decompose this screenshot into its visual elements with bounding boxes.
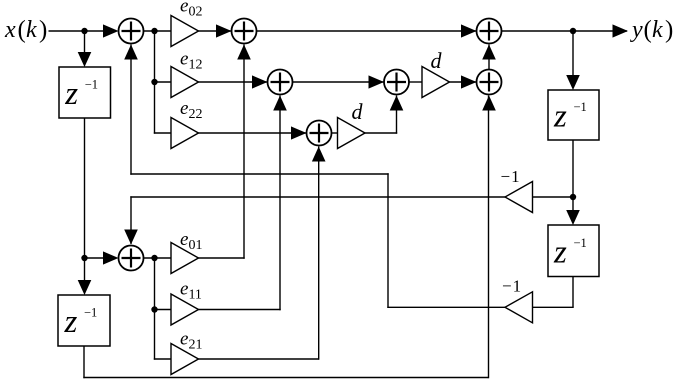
node after adder A1 (151, 28, 157, 34)
adder A4 (384, 70, 409, 95)
arrowhead into adder A6 (291, 126, 307, 139)
adder A7 (output adder) (477, 19, 502, 44)
svg-text:z: z (553, 99, 567, 135)
wire gain d1 up to adder A4 (365, 132, 398, 134)
wire adder A1 to gain e02 (144, 30, 172, 32)
arrowhead into adder A7 (461, 24, 477, 37)
svg-text:(: ( (644, 16, 652, 43)
wire delay B4 to bottom bus (83, 346, 85, 378)
svg-text:−1: −1 (501, 167, 521, 186)
adder A6 (307, 121, 332, 146)
adder A3 (268, 70, 293, 95)
arrowhead into delay B3 (566, 210, 580, 225)
gain N1 -1 triangle (505, 182, 533, 213)
svg-text:k: k (26, 17, 37, 43)
arrowhead into adder A4 (369, 75, 385, 88)
delay B1 z^-1 (59, 67, 111, 118)
wire x(k) input to adder A1 (49, 30, 111, 32)
arrowhead to output y(k) (613, 24, 629, 37)
arrowhead into adder A2 (216, 24, 232, 37)
arrowhead feedback into adder A8 top (124, 230, 138, 245)
svg-text:−1: −1 (84, 306, 97, 320)
arrowhead into delay B2 (566, 75, 580, 90)
wire gain e22 to adder A6 (199, 132, 307, 134)
gain e11 triangle (171, 294, 199, 325)
wire node to gain e11 (155, 309, 172, 311)
wire delay B3 to gain N2 (-1) (572, 277, 574, 308)
gain e12 triangle (171, 67, 199, 98)
arrowhead e21 into adder A6 bottom (312, 147, 326, 162)
wire output branch down to delay B2 (572, 31, 574, 88)
gain d2 triangle (422, 67, 450, 98)
wire gain e11 up to adder A3 bottom (199, 309, 281, 311)
wire adder A3 to adder A4 (293, 81, 385, 83)
gain N2 -1 triangle (505, 292, 533, 323)
wire node to gain N1 (-1) (533, 196, 574, 198)
svg-text:y: y (630, 17, 643, 43)
svg-text:−1: −1 (85, 78, 98, 92)
arrowhead e11 into adder A3 bottom (273, 96, 287, 111)
wire delay B2 to node above delay B3 (572, 140, 574, 223)
svg-text:(: ( (18, 16, 26, 43)
arrowhead into delay B4 (78, 280, 92, 295)
node e11 branch (151, 306, 157, 312)
wire adder A8 to gain e01 (144, 257, 172, 259)
gain e02 triangle (171, 16, 199, 47)
adder A1 (119, 19, 144, 44)
wire gain e21 up to adder A6 bottom (199, 358, 319, 360)
wire node down to delay B4 (84, 258, 86, 290)
arrowhead d1 into adder A4 bottom (390, 96, 404, 111)
wire gain d2 to adder A5 (450, 81, 477, 83)
wire branch down from node after A8 (feeds e11,e21 rows) (154, 258, 156, 360)
node between B2 and B3 (570, 194, 576, 200)
wire branch x(k) down to delay B1 (84, 31, 86, 62)
svg-text:x: x (4, 17, 16, 43)
adder A8 (lower input adder) (119, 246, 144, 271)
wire node to adder A8 (84, 257, 110, 259)
node input branch (81, 28, 87, 34)
svg-text:d: d (352, 99, 364, 124)
node e12 branch (151, 79, 157, 85)
gain e21 triangle (171, 344, 199, 375)
wire node to gain e12 (155, 81, 172, 83)
arrowhead feedback into adder A1 bottom (124, 45, 138, 60)
gain e22 triangle (171, 118, 199, 149)
arrowhead bus into adder A5 bottom (482, 96, 496, 111)
wire delay B1 down to node at A8 row (84, 118, 86, 258)
arrowhead into adder A8 (103, 251, 119, 264)
arrowhead A5 into adder A7 bottom (482, 45, 496, 60)
svg-text:): ) (39, 16, 47, 43)
adder A2 (232, 19, 257, 44)
svg-text:−1: −1 (574, 236, 587, 250)
wire gain N2 to adder A1 bottom (feedback) (387, 306, 505, 308)
arrowhead into adder A3 (252, 75, 268, 88)
svg-text:−1: −1 (502, 277, 522, 296)
wire gain N1 to adder A8 top (feedback) (130, 196, 505, 198)
adder A5 (477, 70, 502, 95)
svg-text:z: z (64, 76, 78, 112)
arrowhead into delay B1 (78, 52, 92, 67)
wire gain e12 to adder A3 (199, 81, 268, 83)
svg-text:z: z (553, 234, 567, 270)
wire branch down from node after A1 (feeds e12,e22 rows) (154, 31, 156, 134)
delay B3 z^-1 (548, 225, 599, 277)
delay B4 z^-1 (58, 295, 110, 346)
wire bottom bus up to adder A5 bottom (488, 96, 490, 379)
wire gain e02 to adder A2 (199, 30, 232, 32)
arrowhead e01 into adder A2 bottom (237, 45, 251, 60)
gain d1 triangle (338, 118, 366, 149)
delay B2 z^-1 (548, 90, 599, 140)
svg-text:): ) (665, 16, 673, 43)
svg-text:−1: −1 (574, 100, 587, 114)
arrowhead into adder A5 (461, 75, 477, 88)
wire adder A5 up to adder A7 (488, 45, 490, 70)
arrowhead into adder A1 (103, 24, 119, 37)
node output branch (570, 28, 576, 34)
gain e01 triangle (171, 243, 199, 274)
node after adder A8 (151, 255, 157, 261)
wire adder A6 to gain d1 (332, 132, 338, 134)
wire adder A7 to output y(k) (502, 30, 628, 32)
svg-text:d: d (431, 48, 443, 73)
svg-text:k: k (652, 17, 663, 43)
node B1 output branch (81, 255, 87, 261)
svg-text:z: z (64, 304, 78, 340)
wire gain e01 up to adder A2 bottom (199, 257, 245, 259)
wire adder A4 to gain d2 (409, 81, 422, 83)
wire adder A2 to adder A7 (257, 30, 477, 32)
